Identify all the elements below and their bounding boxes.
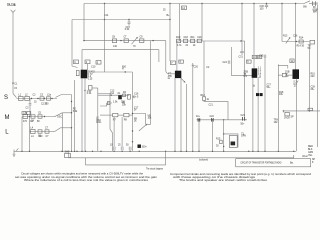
junction dot antenna tap xyxy=(12,82,13,83)
svg-text:15: 15 xyxy=(34,101,37,103)
wire L row down xyxy=(29,117,31,152)
vertical wire x179 xyxy=(179,4,181,42)
resistor R11 xyxy=(184,39,188,43)
label R osc left xyxy=(73,108,78,112)
output line right xyxy=(283,110,320,112)
svg-text:10+: 10+ xyxy=(196,116,201,118)
capacitor C24 xyxy=(228,61,230,64)
label antenna cap xyxy=(14,84,18,90)
label SW2 xyxy=(65,152,70,154)
switch S1b diagonal xyxy=(55,113,63,117)
junction dots x132.5 xyxy=(132,113,133,143)
svg-text:BLK: BLK xyxy=(308,149,313,151)
svg-text:CT: CT xyxy=(124,37,128,39)
resistor R8 xyxy=(124,113,129,116)
junction dots S row xyxy=(31,98,53,99)
labels IF row xyxy=(176,37,202,39)
label right of note box xyxy=(312,159,316,164)
note box text xyxy=(240,162,293,165)
transistor TR2 small blob xyxy=(119,96,122,99)
svg-text:SW: SW xyxy=(303,7,308,9)
wire AGC line x150.5 xyxy=(146,41,151,125)
boxed label sw8 xyxy=(247,60,252,63)
speaker SP connector xyxy=(308,108,313,110)
svg-text:R7: R7 xyxy=(113,119,117,121)
label L4 xyxy=(31,127,34,129)
svg-text:C22: C22 xyxy=(210,116,215,118)
transistor TR3 xyxy=(252,69,257,78)
label L1 xyxy=(19,94,22,96)
label near R15 xyxy=(216,145,219,147)
wire jog x110 xyxy=(98,94,113,152)
IF row y41 xyxy=(176,40,245,42)
svg-text:L1: L1 xyxy=(19,94,22,96)
label x206 xyxy=(206,67,210,69)
wire TR1 emitter down a xyxy=(81,78,83,151)
svg-text:70: 70 xyxy=(133,46,136,48)
junction dots M row xyxy=(29,116,45,117)
wire x192.8 down xyxy=(192,63,194,151)
label TR1 values xyxy=(88,70,96,80)
svg-text:C3: C3 xyxy=(26,108,30,110)
svg-text:.01: .01 xyxy=(117,93,121,95)
capacitor C23 xyxy=(243,117,245,121)
wire R8 to vertical xyxy=(129,114,133,116)
label C1b xyxy=(40,94,44,96)
osc coil junction wire xyxy=(105,71,133,73)
wire x166 down to IFT1 xyxy=(166,41,175,74)
label bus right of jack xyxy=(291,116,295,118)
junction dots rail2 xyxy=(104,19,130,20)
wire L switch to bus xyxy=(61,127,72,129)
resistor R6 short xyxy=(100,103,112,106)
junction dots ground bus xyxy=(21,151,294,152)
svg-text:RED: RED xyxy=(308,146,313,148)
label osc coil xyxy=(96,118,102,125)
bus 3 loop xyxy=(86,151,166,165)
svg-text:2k: 2k xyxy=(193,45,196,47)
wire T1 top xyxy=(224,134,238,148)
svg-text:330: 330 xyxy=(39,136,44,138)
svg-text:C31: C31 xyxy=(239,56,244,58)
svg-text:4.7k: 4.7k xyxy=(177,45,182,47)
vertical wire left band bus xyxy=(71,95,73,152)
svg-text:100+: 100+ xyxy=(142,147,148,149)
T1 core blob xyxy=(231,142,235,145)
wire horizontal y49.6 xyxy=(82,49,159,51)
capacitor C28 at bus xyxy=(121,147,123,151)
label TRN xyxy=(274,119,279,123)
label C21 xyxy=(196,116,201,118)
label C30 xyxy=(260,6,265,10)
battery B1 xyxy=(313,1,318,5)
svg-text:10k: 10k xyxy=(122,105,127,107)
label cluster driver xyxy=(283,36,304,40)
svg-text:C7: C7 xyxy=(45,127,49,129)
wire corner x158.9 xyxy=(158,50,160,62)
svg-text:C26: C26 xyxy=(293,36,298,38)
label C23 xyxy=(241,115,246,117)
label x310 mid xyxy=(311,73,316,90)
svg-text:50+: 50+ xyxy=(241,123,246,125)
label battery xyxy=(313,7,319,14)
switch S2 on-off xyxy=(304,1,310,4)
wire C26 right xyxy=(286,74,293,76)
ground bus main xyxy=(14,150,296,152)
capacitor C21 electrolytic xyxy=(198,118,200,122)
junction dot driver row xyxy=(296,41,297,42)
label 2nd stage xyxy=(110,91,127,95)
diode D1 xyxy=(256,93,258,95)
capacitor C3 hanging xyxy=(29,99,32,117)
switch S1c diagonal xyxy=(55,128,61,132)
svg-text:80: 80 xyxy=(37,121,40,123)
label C9 xyxy=(140,37,144,39)
resistor R10 xyxy=(177,39,181,43)
label L3 xyxy=(23,112,26,114)
label M osc tap xyxy=(57,117,62,119)
svg-text:C19: C19 xyxy=(197,37,202,39)
antenna AN1 xyxy=(11,10,16,18)
label S row below b xyxy=(45,103,50,105)
svg-text:5.6k: 5.6k xyxy=(73,111,78,113)
svg-text:TR-72B: TR-72B xyxy=(7,3,16,7)
wire TR3 down c xyxy=(257,96,259,152)
svg-text:140: 140 xyxy=(113,46,118,48)
resistor R2 xyxy=(89,86,93,91)
capacitor into vertical xyxy=(133,96,137,99)
wire vertical x97.8 xyxy=(97,88,99,151)
resistor R3 xyxy=(112,39,116,43)
earphone jack J1 xyxy=(285,112,289,116)
junction dot bias xyxy=(84,90,85,91)
label volume xyxy=(199,159,208,161)
svg-text:COIL: COIL xyxy=(96,122,102,124)
label C7 xyxy=(45,127,49,129)
svg-text:25: 25 xyxy=(118,145,121,147)
wire x204 vertical xyxy=(203,41,205,97)
label osc row below xyxy=(113,46,136,48)
band label S xyxy=(4,95,8,101)
transistor TR1 converter xyxy=(81,70,87,78)
svg-text:C16: C16 xyxy=(134,93,139,95)
driver transformer T1 xyxy=(229,136,237,148)
svg-text:C8: C8 xyxy=(112,37,116,39)
junction dots top rail xyxy=(104,3,296,4)
band label L xyxy=(5,130,9,136)
svg-text:M: M xyxy=(5,115,10,121)
wire left vertical x84 xyxy=(83,4,85,41)
svg-text:C5: C5 xyxy=(38,112,42,114)
svg-text:0.04: 0.04 xyxy=(125,29,130,31)
labels TR4 below xyxy=(294,81,299,88)
svg-text:R12: R12 xyxy=(201,95,206,97)
svg-text:The knobs and speaker are show: The knobs and speaker are shown within s… xyxy=(179,178,268,182)
svg-text:0.25: 0.25 xyxy=(88,79,93,81)
svg-text:C10: C10 xyxy=(91,66,96,68)
svg-text:JACK: JACK xyxy=(284,116,290,119)
svg-text:The circuit diagram: The circuit diagram xyxy=(146,167,163,170)
coil L3 xyxy=(23,115,28,119)
label C14 xyxy=(104,15,109,17)
capacitor C2 xyxy=(47,97,51,100)
svg-text:2nd: 2nd xyxy=(110,93,115,95)
caption circuit diagram xyxy=(146,167,163,170)
svg-text:100: 100 xyxy=(260,8,265,10)
capacitor C9 xyxy=(140,39,144,43)
label R 10k mid xyxy=(279,92,284,96)
label C1c xyxy=(47,94,52,96)
label rail2 right xyxy=(167,15,171,17)
labels TR3 left xyxy=(244,71,249,78)
svg-text:CIRCUIT OF TRANSISTOR PORTABLE: CIRCUIT OF TRANSISTOR PORTABLE RADIO xyxy=(240,162,281,165)
label C2 xyxy=(41,103,48,105)
labels caps at bus xyxy=(110,145,147,149)
electrolytic C32 dark xyxy=(138,145,141,148)
capacitor C7 xyxy=(45,130,49,133)
switch box SW2 xyxy=(65,154,71,158)
node L row xyxy=(30,131,52,133)
label C22 xyxy=(210,116,215,118)
resistor R4 xyxy=(124,39,128,43)
labels IFT1 left xyxy=(168,73,173,80)
junction dot osc coil xyxy=(125,71,126,72)
wire x114 up xyxy=(113,117,115,147)
svg-text:Where the inductance of a coil: Where the inductance of a coil is less t… xyxy=(24,178,149,182)
label C31 xyxy=(239,56,244,58)
svg-text:C7: C7 xyxy=(46,136,50,138)
boxed label sw3 xyxy=(96,61,101,65)
wire TR1 collector xyxy=(87,64,89,70)
labels TR4 left xyxy=(285,71,290,78)
label 25 xyxy=(163,10,166,12)
svg-text:R11: R11 xyxy=(191,37,196,39)
boxed label sw6 xyxy=(171,61,176,65)
wire M row down xyxy=(21,117,23,152)
capacitor C27 at bus xyxy=(113,147,115,151)
wire audio feed xyxy=(100,114,113,116)
wire between R7 R8 xyxy=(118,114,124,116)
trimmer arrow CT1 xyxy=(132,37,138,44)
label near C23 xyxy=(241,123,246,125)
transistor TR4 xyxy=(293,70,299,79)
label above note box xyxy=(302,156,309,158)
wire x254 mid xyxy=(253,59,255,69)
wire IFT1 secondary down b xyxy=(180,78,182,152)
svg-text:102: 102 xyxy=(274,122,279,124)
svg-text:.01: .01 xyxy=(185,45,189,47)
wire x82 down to TR1 xyxy=(81,50,83,70)
resistor R1 vertical xyxy=(76,71,79,76)
svg-text:GRN: GRN xyxy=(308,152,313,154)
capacitor C6 xyxy=(38,130,42,133)
junction dot mixer row xyxy=(111,95,112,96)
svg-text:H: H xyxy=(122,69,124,71)
driver cluster row xyxy=(282,41,310,43)
capacitor C29 at bus xyxy=(129,147,131,151)
svg-text:0.9: 0.9 xyxy=(244,76,248,78)
svg-text:(volume): (volume) xyxy=(199,159,208,161)
wire x244.7 down xyxy=(244,41,246,120)
svg-text:C2: C2 xyxy=(33,94,37,96)
oscillator row y40.6 xyxy=(84,40,166,42)
svg-text:1k: 1k xyxy=(207,99,210,101)
wire TR1 to osc junction xyxy=(87,71,105,73)
vertical wire x170 xyxy=(169,4,171,62)
label C 0.04 under TR1 xyxy=(87,91,92,95)
svg-text:1k: 1k xyxy=(253,85,256,87)
label C3 xyxy=(26,108,30,110)
boxed label sw9b xyxy=(257,55,261,58)
svg-text:25+: 25+ xyxy=(311,89,316,91)
svg-text:L2a: L2a xyxy=(47,94,52,96)
wire C26 left xyxy=(278,74,282,76)
svg-text:50: 50 xyxy=(126,145,129,147)
node S row xyxy=(17,98,58,100)
svg-text:R15: R15 xyxy=(216,138,221,140)
bus 2 xyxy=(69,151,294,158)
label C6 xyxy=(38,136,42,138)
IF transformer IFT1 xyxy=(175,71,181,78)
svg-text:kc: kc xyxy=(168,78,171,80)
capacitor C13 xyxy=(123,94,126,97)
label T1 xyxy=(241,133,246,137)
wire battery down right edge xyxy=(316,5,318,147)
node M row xyxy=(22,116,56,118)
capacitor C15 bypass xyxy=(128,20,131,26)
switch S1a xyxy=(13,94,17,98)
label C24 xyxy=(223,62,228,64)
svg-text:B+: B+ xyxy=(167,15,171,17)
right edge connector labels xyxy=(308,146,313,157)
diode D2 xyxy=(260,93,262,95)
labels TR3 right xyxy=(258,67,262,78)
capacitor C30 at rail xyxy=(265,4,268,9)
label TR3 below xyxy=(253,85,256,87)
svg-text:C3: C3 xyxy=(40,94,44,96)
svg-text:5D: 5D xyxy=(308,48,311,50)
junction dot output xyxy=(283,110,311,111)
junction dot IF row xyxy=(240,40,241,41)
boxed label sw9 xyxy=(252,55,256,58)
wire x223.7 down xyxy=(223,120,225,152)
label below 2nd row xyxy=(113,101,126,103)
label driver row right xyxy=(297,45,305,47)
svg-text:0.04: 0.04 xyxy=(87,93,92,95)
resistor R12 xyxy=(202,97,205,101)
coil L4 xyxy=(31,130,36,134)
earth symbol xyxy=(13,148,19,156)
label J1 xyxy=(284,116,290,119)
supply rail top xyxy=(84,3,304,5)
boxed label sw10 xyxy=(290,59,294,63)
labels R7 R8 xyxy=(113,119,128,121)
svg-text:C25: C25 xyxy=(259,55,264,57)
resistor R15 xyxy=(220,140,223,143)
label VR1 xyxy=(148,115,153,119)
label switch xyxy=(303,7,308,9)
notes paragraph right xyxy=(170,172,312,182)
svg-text:C20: C20 xyxy=(194,66,199,68)
wire IFT1 arrow down xyxy=(186,84,188,151)
capacitor C26 coupling xyxy=(282,73,286,76)
svg-text:C21: C21 xyxy=(209,104,214,106)
wire TR3 down b xyxy=(257,78,259,94)
capacitor C5 xyxy=(38,115,42,118)
boxed label sw-m2 xyxy=(27,112,31,115)
coil L1 xyxy=(19,96,24,100)
label near TR1 top xyxy=(91,66,96,68)
label R3 xyxy=(112,37,116,39)
label C15 xyxy=(125,27,131,31)
wire audio dot down b xyxy=(212,120,214,152)
svg-text:C2 30: C2 30 xyxy=(41,103,48,105)
junction dot rail2 end xyxy=(169,19,170,20)
wire x122 up xyxy=(121,117,123,147)
wire curve to transistor base xyxy=(72,66,78,68)
wire corner left down xyxy=(71,20,73,67)
svg-text:5.8: 5.8 xyxy=(258,73,262,75)
label R15 xyxy=(216,138,221,140)
svg-text:30: 30 xyxy=(216,145,219,147)
capacitor C19 xyxy=(197,39,201,43)
svg-text:8: 8 xyxy=(312,162,314,164)
tuning arrow IFT1 xyxy=(181,78,185,82)
labels right of x132 vertical xyxy=(134,93,139,122)
mixer row y95.2 xyxy=(98,94,129,96)
wire TR1 emitter down b xyxy=(84,78,86,151)
junction dots x223.7 xyxy=(223,133,224,147)
svg-text:S: S xyxy=(4,95,8,101)
svg-text:Ba.: Ba. xyxy=(290,163,294,165)
coil L2 xyxy=(25,96,30,100)
svg-text:R4: R4 xyxy=(123,92,127,94)
svg-text:C1: C1 xyxy=(14,84,18,86)
thermistor TH1 xyxy=(310,40,315,44)
audio coupling row xyxy=(197,119,248,121)
svg-text:5: 5 xyxy=(137,96,139,98)
wire x309.5 down xyxy=(309,44,311,111)
svg-text:SP: SP xyxy=(291,116,295,118)
svg-text:10: 10 xyxy=(110,145,113,147)
trimmer arrow VR2 xyxy=(286,38,290,44)
small marks right of IFT1 xyxy=(192,65,194,68)
labels above R7 xyxy=(122,102,127,106)
vertical wire x254 xyxy=(253,4,255,56)
svg-text:2k: 2k xyxy=(134,121,137,123)
wire S switch to bus xyxy=(56,95,72,98)
wire L row ext xyxy=(52,131,55,133)
svg-text:L2: L2 xyxy=(25,94,28,96)
svg-text:SP: SP xyxy=(312,159,316,161)
capacitor C4 xyxy=(31,115,35,118)
wire C25 to bus xyxy=(264,58,266,151)
shield box detector xyxy=(231,47,252,75)
wire IFT1 secondary down xyxy=(174,78,176,152)
resistor R7 xyxy=(113,113,118,116)
wire to battery xyxy=(309,3,312,5)
vertical wire x242 xyxy=(241,4,243,52)
svg-text:470: 470 xyxy=(23,121,28,123)
capacitor C31 cluster xyxy=(240,52,244,56)
junction dots audio row xyxy=(198,119,245,120)
label S row trim xyxy=(34,101,37,103)
capacitor C18 xyxy=(191,39,195,43)
svg-text:C18: C18 xyxy=(184,37,189,39)
wire R2 right xyxy=(92,87,98,89)
wire TR4 down xyxy=(296,79,298,152)
boxed label sw7 xyxy=(179,60,184,63)
